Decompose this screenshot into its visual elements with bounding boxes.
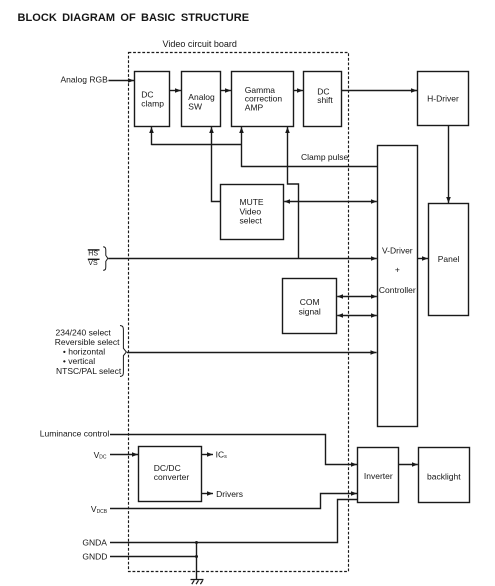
block: Inverter <box>358 448 399 503</box>
brace for select inputs <box>120 326 126 377</box>
svg-text:VDCB: VDCB <box>91 504 108 515</box>
wire: GNDD to ground stem <box>110 556 197 558</box>
wire: COM signal and V-Driver (bidirectional, upper) <box>337 296 377 298</box>
block: Panel <box>429 204 469 316</box>
block: backlight <box>419 448 470 503</box>
wire: VDC to DC/DC converter <box>110 454 138 456</box>
svg-text:ICs: ICs <box>216 450 228 460</box>
svg-text:+: + <box>395 265 400 275</box>
brace for HS/VS <box>103 247 108 271</box>
wire: VDCB to Inverter <box>110 494 357 509</box>
junction dot GNDA <box>195 541 198 544</box>
svg-text:Drivers: Drivers <box>216 489 243 499</box>
block: DC shift <box>304 72 342 127</box>
svg-text:GNDA: GNDA <box>82 538 107 548</box>
block: DC clamp <box>135 72 170 127</box>
svg-text:V-Driver: V-Driver <box>382 246 413 256</box>
wire: DC/DC converter to Drivers <box>202 493 214 495</box>
wire: HS/VS to V-Driver <box>108 258 377 260</box>
block: H-Driver <box>418 72 469 126</box>
svg-text:converter: converter <box>154 472 190 482</box>
svg-text:BLOCK DIAGRAM OF BASIC STRUCTU: BLOCK DIAGRAM OF BASIC STRUCTURE <box>18 12 250 24</box>
block: Gamma correction AMP <box>232 72 294 127</box>
svg-text:VS: VS <box>88 260 98 267</box>
block: MUTE Video select <box>221 185 284 240</box>
svg-text:Video circuit board: Video circuit board <box>163 39 237 49</box>
ground symbol <box>191 580 204 585</box>
wire: clamp pulse branch left <box>152 144 242 146</box>
svg-text:HS: HS <box>88 251 98 258</box>
wire: DC shift to H-Driver <box>342 90 418 92</box>
wire: clamp pulse branch up to Gamma correction AMP <box>241 127 243 167</box>
wire: Analog RGB input to DC clamp <box>109 80 135 82</box>
wire: DC/DC converter to ICs <box>202 454 214 456</box>
svg-text:select: select <box>240 216 263 226</box>
wire: Luminance control to Inverter <box>110 435 357 465</box>
wire: clamp pulse from V-Driver <box>242 166 378 168</box>
wire: H-Driver down to Panel <box>448 126 450 204</box>
wire: clamp pulse branch up to DC clamp <box>151 127 153 145</box>
wire: sync branch from HS/VS line up to Gamma correction AMP <box>288 127 299 259</box>
wire: DC clamp to Analog SW <box>170 90 182 92</box>
wire: Inverter to backlight <box>399 464 418 466</box>
svg-text:GNDD: GNDD <box>82 552 107 562</box>
wire: select inputs to V-Driver <box>127 352 377 354</box>
wire: MUTE Video select to V-Driver (bidirectional) <box>284 201 377 203</box>
overline of HS <box>88 249 100 251</box>
svg-text:SW: SW <box>188 102 202 112</box>
wire: ground stem <box>196 543 198 580</box>
svg-text:shift: shift <box>317 95 333 105</box>
svg-text:Panel: Panel <box>438 254 460 264</box>
overline of VS <box>88 258 100 260</box>
wire: V-Driver to Panel <box>418 258 429 260</box>
svg-text:clamp: clamp <box>141 99 164 109</box>
block: V-Driver + Controller <box>378 146 418 427</box>
svg-text:Clamp pulse: Clamp pulse <box>301 152 349 162</box>
wire: Analog SW to Gamma correction AMP <box>221 90 232 92</box>
wire: Gamma correction AMP to DC shift <box>294 90 304 92</box>
svg-text:Inverter: Inverter <box>364 471 393 481</box>
svg-text:signal: signal <box>299 307 321 317</box>
svg-text:• vertical: • vertical <box>63 356 95 366</box>
svg-text:H-Driver: H-Driver <box>427 93 459 103</box>
svg-text:Luminance control: Luminance control <box>40 428 110 438</box>
svg-text:• horizontal: • horizontal <box>63 346 105 356</box>
svg-text:Analog RGB: Analog RGB <box>61 74 109 84</box>
svg-text:VDC: VDC <box>94 450 107 461</box>
wire: GNDA to Inverter <box>110 500 358 543</box>
svg-text:NTSC/PAL select: NTSC/PAL select <box>56 366 122 376</box>
svg-text:backlight: backlight <box>427 471 461 481</box>
block: COM signal <box>283 279 337 334</box>
svg-text:Controller: Controller <box>379 285 416 295</box>
wire: MUTE Video select to Analog SW <box>212 127 221 202</box>
block: Analog SW <box>182 72 221 127</box>
wire: COM signal and V-Driver (bidirectional, lower) <box>337 315 377 317</box>
board outline (dashed): video circuit board <box>129 53 349 572</box>
junction dot GNDD <box>195 555 198 558</box>
block: DC/DC converter <box>139 447 202 502</box>
svg-text:AMP: AMP <box>245 102 264 112</box>
